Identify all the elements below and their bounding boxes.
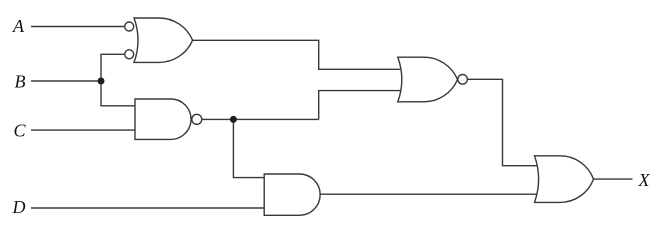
wire G1 output to NOR G3 top input	[193, 40, 410, 69]
input bubble on A input of G1	[125, 22, 134, 31]
junction node N1	[98, 78, 105, 85]
wire node N2 down to AND G4 top input	[233, 119, 264, 177]
NOR gate G3 body	[398, 57, 458, 102]
wire B to node N1	[31, 80, 101, 82]
svg-text:X: X	[638, 170, 651, 190]
wire AND G4 output to OR G5 bottom input	[320, 193, 546, 195]
NAND gate G2 body	[135, 99, 191, 139]
junction node N2	[230, 116, 237, 123]
wire up to NOR G3 bottom input	[319, 91, 410, 120]
OR gate G1 with inverted inputs	[134, 18, 193, 62]
output bubble of NAND G2	[192, 114, 202, 124]
AND gate G4 body	[264, 174, 320, 215]
wire C to NAND G2 bottom input	[31, 129, 136, 131]
wire NAND G2 output through node N2	[202, 118, 319, 120]
OR gate G5 body	[535, 156, 594, 203]
wire D to AND G4 bottom input	[31, 207, 264, 209]
wire OR G5 output to X	[594, 178, 633, 180]
input bubble on B input of G1	[125, 50, 134, 59]
wire A to inverted input of gate G1	[31, 26, 124, 28]
wire NOR G3 output to OR G5 top input	[467, 79, 546, 165]
svg-text:A: A	[12, 16, 25, 36]
wire node N1 up to inverted input of gate G1	[101, 54, 124, 81]
wire node N1 down to NAND G2 top input	[101, 81, 136, 106]
output bubble of NOR G3	[458, 75, 468, 85]
svg-text:C: C	[14, 121, 27, 141]
svg-text:B: B	[15, 72, 26, 92]
svg-text:D: D	[12, 197, 26, 217]
